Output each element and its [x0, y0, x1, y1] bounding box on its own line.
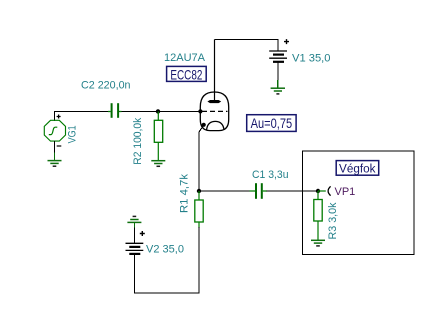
tube anode plate [207, 40, 221, 104]
tube grid dashed [202, 110, 228, 112]
svg-text:Végfok: Végfok [339, 163, 376, 175]
svg-text:ECC82: ECC82 [170, 67, 202, 83]
battery V1 [269, 51, 287, 62]
subcircuit box Vegfok [302, 151, 414, 254]
svg-text:Au=0,75: Au=0,75 [251, 115, 293, 131]
wire R1 bottom to V2 [134, 227, 199, 293]
svg-text:VG1: VG1 [67, 125, 79, 143]
capacitor C1 [250, 183, 268, 199]
generator VG1 [44, 120, 65, 141]
wire VG1 top to C2 [55, 112, 109, 122]
minus mark VG1 [57, 145, 62, 147]
svg-text:C1 3,3u: C1 3,3u [252, 169, 289, 181]
wire C1 to VP1 [267, 190, 319, 192]
tube cathode [207, 121, 224, 129]
wire cathode down [199, 125, 204, 191]
ground above V2 [127, 216, 141, 222]
ground below V1 [271, 88, 285, 94]
node grid entry [198, 109, 202, 113]
wire V2 top stem [133, 222, 135, 228]
svg-text:V1 35,0: V1 35,0 [292, 53, 331, 65]
tube U1 envelope [200, 92, 228, 131]
node VP1 junction [316, 189, 320, 193]
ground below R2 [151, 161, 165, 167]
svg-text:12AU7A: 12AU7A [164, 52, 206, 64]
node cathode / R1 / C1 junction [197, 189, 201, 193]
svg-text:R1 4,7k: R1 4,7k [179, 173, 191, 213]
plus mark V1 [284, 39, 289, 44]
resistor R1 [195, 191, 203, 228]
label box ECC82 [167, 66, 207, 82]
wire C2 to tube grid [122, 111, 202, 113]
ground below VG1 [48, 161, 62, 167]
battery V2 [126, 243, 144, 254]
resistor R2 [154, 111, 162, 160]
ground below R3 [311, 240, 325, 246]
resistor R3 [314, 191, 322, 240]
label box Vegfok [336, 161, 379, 176]
svg-text:R3 3,0k: R3 3,0k [327, 202, 339, 239]
capacitor C2 [108, 103, 122, 118]
wire VG1 bottom [54, 141, 56, 153]
pin marker VP1 [318, 186, 331, 195]
wire V1 top stem [277, 40, 279, 52]
wire junction to C1 [199, 190, 250, 192]
svg-text:VP1: VP1 [335, 186, 356, 198]
label box Au=0,75 [247, 115, 296, 132]
plus mark V2 [140, 231, 145, 236]
svg-text:C2 220,0n: C2 220,0n [81, 80, 131, 92]
plus mark VG1 [57, 115, 61, 119]
svg-text:V2 35,0: V2 35,0 [146, 244, 184, 256]
node cathode exit [202, 123, 206, 127]
svg-text:R2 100,0k: R2 100,0k [132, 117, 144, 164]
wire V1 bottom stem [277, 63, 279, 81]
node grid input junction [156, 109, 160, 113]
wire anode to V1 [215, 39, 279, 41]
